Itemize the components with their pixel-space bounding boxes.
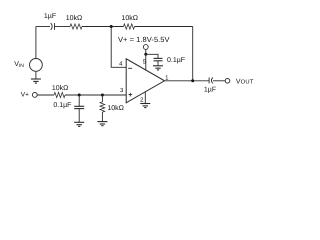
wire R1 to R2 through node A bbox=[82, 26, 124, 28]
svg-text:0.1µF: 0.1µF bbox=[53, 102, 71, 109]
wire node C to C2 bbox=[78, 95, 80, 106]
wire VIN vertical bbox=[35, 27, 37, 59]
ground (C3) bbox=[153, 66, 163, 70]
resistor R2 10k feedback bbox=[124, 24, 135, 29]
svg-text:10kΩ: 10kΩ bbox=[52, 84, 69, 92]
svg-text:1µF: 1µF bbox=[204, 86, 216, 93]
wire node B to C3 bbox=[146, 54, 158, 58]
wire node D to R4 bbox=[101, 95, 103, 102]
ground (R4) bbox=[97, 122, 107, 126]
svg-text:1µF: 1µF bbox=[44, 13, 56, 20]
wire feedback vertical bbox=[192, 27, 194, 81]
svg-text:0.1µF: 0.1µF bbox=[167, 57, 185, 64]
terminal VOUT bbox=[225, 79, 230, 84]
node D junction dot bbox=[101, 94, 104, 97]
wire R3 to pin 3 bottom rail bbox=[65, 94, 126, 96]
wire output pin 1 to C4 bbox=[165, 80, 210, 82]
node A junction dot bbox=[110, 25, 113, 28]
wire C1 to R1 bbox=[55, 26, 71, 28]
svg-text:4: 4 bbox=[119, 61, 123, 68]
svg-text:2: 2 bbox=[140, 96, 144, 103]
svg-text:10kΩ: 10kΩ bbox=[66, 14, 83, 22]
resistor R1 10k bbox=[70, 24, 82, 29]
wire V+ terminal to R3 bbox=[37, 94, 54, 96]
wire R4 to ground bbox=[101, 112, 103, 121]
wire C2 to ground bbox=[78, 109, 80, 123]
svg-text:VIN: VIN bbox=[14, 61, 24, 69]
terminal V+ input (bottom left) bbox=[32, 93, 37, 98]
wire node B to pin 5 bbox=[145, 54, 147, 70]
ground (pin 2) bbox=[140, 104, 150, 108]
svg-text:V+: V+ bbox=[21, 91, 29, 98]
capacitor C2 0.1uF bbox=[74, 106, 84, 108]
resistor R3 10k bbox=[54, 92, 65, 97]
wire V+ terminal to node B bbox=[145, 49, 147, 54]
capacitor C3 0.1uF bypass bbox=[154, 58, 163, 60]
wire VIN to ground bbox=[35, 71, 37, 79]
svg-text:10kΩ: 10kΩ bbox=[121, 14, 138, 22]
source VIN bbox=[30, 59, 43, 72]
wire node A down to pin 4 bbox=[111, 27, 126, 68]
wire C4 to VOUT terminal bbox=[213, 80, 225, 82]
svg-text:10kΩ: 10kΩ bbox=[107, 104, 124, 112]
svg-text:V+ = 1.8V-5.5V: V+ = 1.8V-5.5V bbox=[118, 35, 170, 44]
svg-text:3: 3 bbox=[120, 87, 124, 94]
svg-text:VOUT: VOUT bbox=[236, 78, 254, 85]
node E junction dot (feedback/output) bbox=[191, 79, 194, 82]
node B junction dot bbox=[144, 53, 147, 56]
wire pin 2 to ground bbox=[144, 92, 146, 104]
op-amp U1 bbox=[126, 59, 164, 103]
capacitor C4 1uF output bbox=[209, 77, 213, 83]
wire C3 to ground bbox=[157, 61, 159, 66]
op-amp plus sign bbox=[129, 93, 133, 97]
ground (C2) bbox=[74, 122, 84, 126]
wire top rail left: VIN corner to C1 bbox=[36, 26, 50, 28]
terminal V+ supply bbox=[143, 45, 148, 50]
capacitor C1 1uF input bbox=[51, 23, 55, 30]
resistor R4 10k to ground bbox=[100, 102, 105, 112]
ground (VIN source) bbox=[31, 79, 41, 83]
op-amp minus sign bbox=[128, 67, 132, 69]
wire R2 to feedback corner bbox=[135, 26, 193, 28]
node C junction dot bbox=[78, 94, 81, 97]
